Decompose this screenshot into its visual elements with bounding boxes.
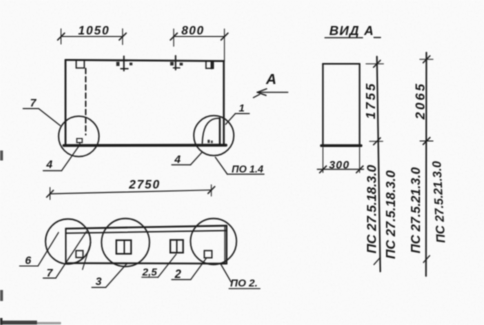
- svg-text:6: 6: [25, 255, 32, 267]
- svg-text:1: 1: [239, 103, 245, 115]
- svg-text:ПС 27.5.18.3.0: ПС 27.5.18.3.0: [364, 164, 379, 253]
- svg-text:800: 800: [181, 24, 204, 38]
- svg-text:2750: 2750: [128, 178, 161, 192]
- svg-text:1755: 1755: [363, 81, 378, 119]
- svg-text:ПО 1.4: ПО 1.4: [232, 164, 264, 175]
- svg-text:7: 7: [30, 98, 37, 110]
- svg-text:2065: 2065: [412, 82, 427, 121]
- svg-text:ПС 27.5.21.3.0: ПС 27.5.21.3.0: [408, 167, 423, 253]
- svg-text:4: 4: [45, 159, 52, 171]
- svg-text:ПС 27.5.18.3.0: ПС 27.5.18.3.0: [383, 170, 398, 259]
- svg-text:300: 300: [329, 159, 350, 171]
- svg-text:3: 3: [96, 276, 102, 288]
- svg-text:7: 7: [46, 267, 53, 279]
- svg-text:ПО 2.: ПО 2.: [230, 278, 257, 290]
- svg-text:А: А: [265, 72, 276, 88]
- svg-text:1050: 1050: [78, 23, 110, 37]
- svg-text:4: 4: [174, 154, 181, 166]
- svg-text:ВИД А: ВИД А: [329, 23, 374, 38]
- svg-text:2: 2: [174, 269, 182, 281]
- svg-text:2,5: 2,5: [141, 267, 157, 279]
